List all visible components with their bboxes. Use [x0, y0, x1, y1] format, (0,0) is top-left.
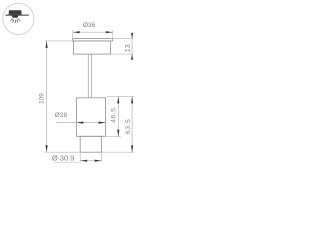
icon light ray 4	[17, 20, 18, 23]
arrow D30.9 right	[95, 160, 102, 162]
leader line D30.9	[54, 161, 80, 163]
ext line 109 bottom	[45, 151, 80, 153]
svg-text:63.5: 63.5	[125, 119, 132, 134]
lamp body rect	[76, 98, 105, 137]
arrow 13 bottom	[131, 54, 133, 60]
ext line body bottom right	[106, 136, 120, 138]
icon light ray 2	[13, 20, 14, 23]
arrow D36 left	[73, 31, 80, 33]
arrow D38 left	[76, 122, 83, 124]
arrow 46.5 top	[117, 96, 119, 103]
ext line fixture bottom right	[102, 151, 134, 153]
dim line D30.9	[80, 160, 101, 162]
ceiling plate body rect	[73, 41, 110, 54]
arrow 63.5 bottom	[131, 145, 133, 152]
icon light ray 1	[10, 19, 13, 21]
stem right line	[90, 54, 92, 98]
arrow 46.5 bottom	[117, 130, 119, 137]
ext line body top right	[106, 95, 134, 97]
ext line D30.9 right	[101, 153, 103, 162]
lamp bottom section rect	[80, 136, 101, 152]
dim line 109	[46, 41, 48, 152]
svg-text:109: 109	[38, 93, 45, 104]
svg-text:46.5: 46.5	[110, 107, 117, 122]
arrow 63.5 top	[131, 96, 133, 103]
arrow 109 bottom	[46, 145, 48, 152]
arrow D36 right	[106, 31, 113, 33]
dim line 13	[131, 32, 133, 60]
dim line D36	[73, 31, 113, 33]
svg-text:Ø38: Ø38	[55, 112, 68, 119]
icon circle	[3, 3, 34, 34]
arrow 13 top	[131, 33, 133, 39]
svg-text:Ø36: Ø36	[83, 22, 96, 29]
icon lamp housing bar	[9, 10, 22, 14]
icon lamp head	[11, 15, 18, 18]
ceiling plate flange rect	[73, 39, 113, 41]
svg-text:13: 13	[125, 44, 132, 52]
stem left line	[87, 54, 89, 98]
icon light ray 3	[14, 20, 16, 23]
arrow D38 right	[99, 122, 106, 124]
dim line 63.5	[131, 96, 133, 152]
ext line D30.9 left	[79, 153, 81, 162]
leader+dim line D38	[56, 122, 105, 124]
dim line 46.5	[117, 96, 119, 136]
ext line D36 right	[112, 30, 114, 38]
ext line 13 bottom	[111, 53, 133, 55]
ext line 13 top	[113, 38, 133, 40]
icon ceiling line	[5, 14, 28, 16]
svg-text:Ø 30.9: Ø 30.9	[52, 153, 75, 162]
arrow D30.9 left	[80, 160, 87, 162]
ext line D36 left	[72, 30, 74, 38]
icon light ray 5	[18, 19, 21, 21]
arrow 109 top	[46, 41, 48, 48]
ext line 109 top	[45, 40, 73, 42]
